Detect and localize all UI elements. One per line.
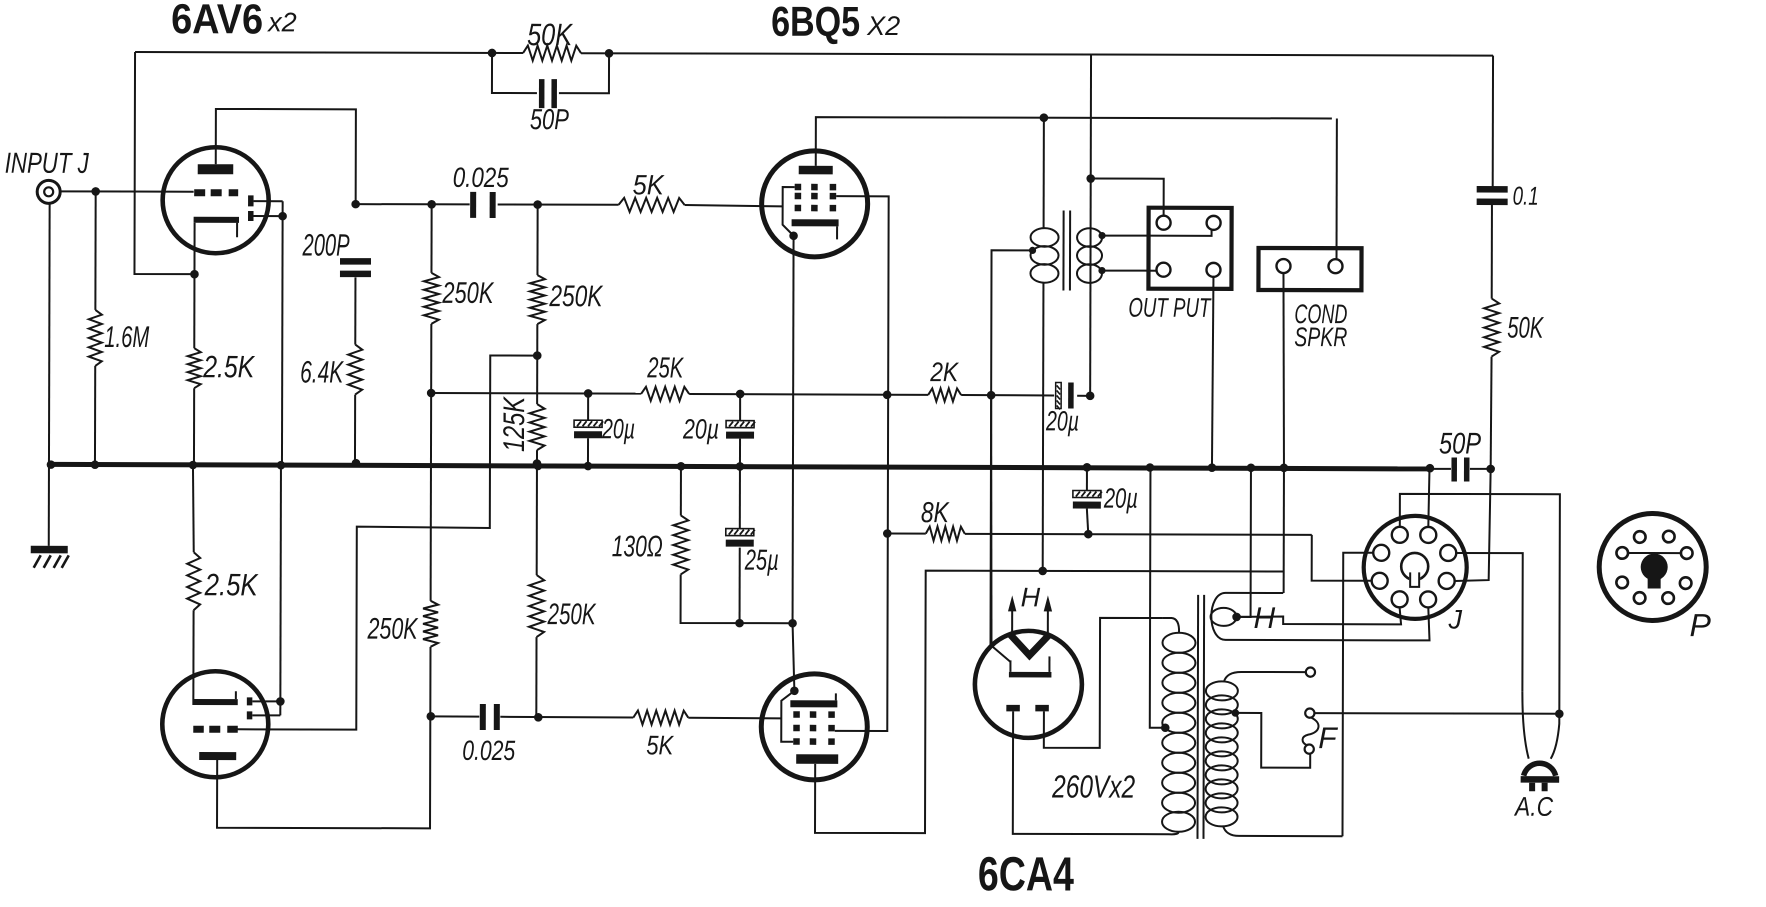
- node HV centre tap: [1161, 723, 1170, 732]
- tube V1 cathode: [194, 217, 239, 238]
- node bus junction at end: [1426, 464, 1435, 473]
- connector J pin 3: [1373, 545, 1389, 561]
- wire V1 diode plates tie-down: [253, 201, 283, 462]
- svg-text:25K: 25K: [646, 352, 684, 384]
- wire V2 diode plates tie-up: [252, 466, 281, 715]
- label 20u no.3: [1045, 405, 1079, 436]
- wire F switch to AC node: [1315, 712, 1560, 715]
- tube V3 grids (3x3): [795, 184, 837, 212]
- label 5K (top): [633, 169, 665, 200]
- connector P pin 3: [1616, 547, 1628, 559]
- node B (top rail / 50P loop right): [605, 49, 614, 58]
- label 125K (rotated): [498, 395, 531, 452]
- wire OPT primary bottom lead: [1042, 282, 1045, 570]
- tube V5 6CA4 envelope: [975, 631, 1082, 738]
- node OPT primary top: [1040, 113, 1049, 122]
- node coupling/250K-125K junction: [533, 200, 542, 209]
- tube V2 cathode: [192, 691, 237, 705]
- connector J pin 1: [1392, 527, 1408, 543]
- label 50K (right): [1507, 312, 1544, 345]
- resistor 2.5K (V1 cathode): [187, 348, 200, 462]
- node 20u-2 top: [736, 390, 745, 399]
- capacitor 20u no.2 (electrolytic): [726, 394, 755, 464]
- node screen rail / 8K: [883, 529, 892, 538]
- resistor 2.5K (V2 cathode): [187, 466, 200, 610]
- wire PT primary bottom lead: [1223, 826, 1343, 836]
- tube V2 diode plates: [247, 697, 253, 719]
- capacitor 20u no.4 (electrolytic): [1073, 469, 1102, 534]
- connector input jack J (inner tip): [44, 187, 53, 196]
- resistor 250K (upper left): [424, 273, 439, 324]
- terminal OUT PUT 3: [1156, 263, 1170, 277]
- node B+ at OPT feed: [1086, 174, 1095, 183]
- transformer OPT core: [1063, 210, 1070, 290]
- wire 125K to bus to 250K lower: [536, 450, 538, 575]
- terminal block OUT PUT: [1148, 208, 1231, 289]
- label 6BQ5 X2: [771, 0, 900, 45]
- wire ground bus (heavy): [51, 464, 1430, 469]
- wire V5 left plate to HV bottom: [1013, 711, 1170, 834]
- tube V5 heater chevron: [1010, 635, 1048, 656]
- tube V1 diode plates: [248, 195, 254, 221]
- label 200P: [302, 227, 350, 262]
- wire input jack sleeve to ground: [48, 204, 51, 546]
- wire PT primary top lead: [1224, 672, 1306, 682]
- tube V4 grids (3x3): [793, 711, 835, 745]
- tube V4 cathode: [790, 693, 837, 707]
- node B+ / OPT-CT junction: [987, 391, 996, 400]
- wire HV centre tap riser: [1150, 470, 1166, 728]
- svg-text:H: H: [1021, 582, 1041, 612]
- node 25K rail left end: [427, 389, 436, 398]
- capacitor 50P (across 50K): [539, 79, 557, 108]
- tube V5 plate left: [1006, 705, 1020, 712]
- wire 250K lower lead: [535, 637, 537, 717]
- svg-text:250K: 250K: [442, 277, 495, 310]
- connector J pin 8: [1420, 591, 1436, 607]
- svg-text:H: H: [1254, 602, 1276, 635]
- node bus junction at OUTPUT: [1208, 463, 1217, 472]
- wire phase-split branch to V2 grid: [237, 355, 537, 730]
- wire decoupling line (25K/2K rail): [431, 393, 1090, 396]
- label 130ohm: [612, 530, 663, 563]
- label COND SPKR: [1294, 299, 1347, 352]
- connector J pin 7: [1392, 591, 1408, 607]
- wire V4 g3 tie: [781, 691, 794, 742]
- node OPT secondary bottom: [1098, 267, 1105, 274]
- svg-text:F: F: [1318, 722, 1338, 755]
- connector P pin 5: [1616, 577, 1628, 589]
- svg-text:x2: x2: [266, 7, 297, 37]
- transformer OPT primary winding: [1030, 228, 1058, 283]
- resistor 250K (upper right): [530, 275, 545, 324]
- node bus junction at HVCT: [1146, 463, 1155, 472]
- label J: [1448, 604, 1463, 634]
- svg-text:0.025: 0.025: [462, 735, 515, 766]
- svg-text:20µ: 20µ: [1103, 483, 1138, 514]
- label F: [1318, 722, 1338, 755]
- svg-text:OUT PUT: OUT PUT: [1128, 293, 1212, 323]
- label 50P (across 50K): [530, 104, 570, 136]
- node bottom coupling right: [534, 713, 543, 722]
- label 250K (upper left): [442, 277, 495, 310]
- label 5K (bottom): [646, 730, 674, 760]
- wire B+ riser: [1089, 55, 1092, 396]
- connector P pin 8: [1662, 592, 1674, 604]
- ground chassis ground symbol: [31, 546, 69, 568]
- label 0.1: [1513, 181, 1539, 211]
- label 2.5K (V1): [202, 349, 255, 384]
- svg-text:X2: X2: [866, 11, 900, 41]
- svg-text:8K: 8K: [921, 497, 950, 529]
- wire PT primary bottom to J socket: [1342, 553, 1373, 837]
- node 50P right junction: [1486, 465, 1495, 474]
- tube V2 grid (dashed): [193, 726, 238, 733]
- connector P plug shell: [1599, 513, 1706, 620]
- node bus junction at 2.5K: [189, 461, 198, 470]
- connector P pin 2: [1663, 531, 1675, 543]
- wire V1 plate riser: [216, 109, 356, 204]
- wire heater H line to J socket: [1237, 607, 1402, 624]
- wire V5 heater arrow left: [1008, 595, 1016, 633]
- wire V5 heater arrow right: [1044, 595, 1053, 634]
- svg-text:50K: 50K: [527, 17, 573, 52]
- svg-text:2K: 2K: [929, 357, 959, 387]
- wire COND SPKR left to bus: [1283, 273, 1285, 467]
- resistor 250K (lower right): [529, 575, 544, 637]
- connector J pin 6: [1439, 573, 1455, 589]
- svg-text:250K: 250K: [547, 598, 597, 631]
- wire V2 cathode lead: [192, 610, 194, 699]
- node bus junction at 25u: [736, 462, 745, 471]
- node bus junction at 125K: [534, 462, 543, 471]
- label 250K (lower right): [547, 598, 597, 631]
- wire HV top lead entry: [1163, 618, 1180, 633]
- capacitor 25u (cathode bypass): [726, 468, 755, 624]
- node coupling/250K junction: [427, 200, 436, 209]
- svg-text:1.6M: 1.6M: [104, 321, 149, 354]
- node 6.4K at bus: [352, 459, 361, 468]
- transformer OPT secondary winding: [1077, 228, 1102, 283]
- label OUT PUT: [1128, 293, 1212, 323]
- node AC junction: [1555, 709, 1564, 718]
- switch F blade: [1303, 718, 1319, 745]
- capacitor 200P: [340, 258, 371, 277]
- label H (6CA4 heater): [1021, 582, 1041, 612]
- wire AC right wire: [1551, 714, 1560, 759]
- label 0.025 (top): [453, 162, 509, 193]
- wire feedback drop to V1 cathode: [134, 52, 191, 274]
- svg-text:20µ: 20µ: [682, 413, 719, 444]
- label 6.4K: [300, 354, 344, 389]
- terminal OUT PUT 4: [1206, 263, 1220, 277]
- wire V3/V4 cathode rail: [792, 236, 795, 691]
- wire B+ rail drop to COND SPKR: [1336, 118, 1338, 259]
- node cathode rail / bias network: [788, 619, 797, 628]
- wire V3 g2 to screen rail: [835, 196, 889, 731]
- terminal COND SPKR left: [1276, 259, 1290, 273]
- connector AC plug prongs: [1529, 783, 1548, 792]
- wire V3 plate riser to B+ rail: [816, 117, 1332, 167]
- wire OUT PUT ground lead: [1212, 277, 1213, 467]
- node input/1.6M junction: [91, 187, 100, 196]
- svg-text:2.5K: 2.5K: [204, 567, 259, 602]
- resistor 25K: [641, 387, 689, 401]
- node 20u-1 top: [584, 389, 593, 398]
- node bus junction at diode: [277, 461, 286, 470]
- svg-text:P: P: [1690, 607, 1712, 643]
- svg-text:0.025: 0.025: [453, 162, 509, 193]
- wire 50K to 50P node: [1490, 357, 1493, 469]
- wire coupling line (V2 plate to V4 grid): [430, 716, 781, 718]
- wire top rail (feedback/output line) y=54: [135, 52, 1493, 56]
- node OPT centre tap: [1029, 247, 1036, 254]
- wire input tip to V1 grid: [60, 190, 193, 192]
- connector J pin 4: [1440, 545, 1456, 561]
- label 20u no.4: [1103, 483, 1138, 514]
- node V1 diode tie: [278, 212, 287, 221]
- svg-text:20µ: 20µ: [1045, 405, 1079, 436]
- connector P pin 1: [1634, 531, 1646, 543]
- svg-text:6CA4: 6CA4: [978, 848, 1074, 901]
- wire V1 cathode lead: [193, 223, 195, 348]
- node bus junction at 20u4: [1083, 463, 1092, 472]
- wire J pin6 to 50P node: [1455, 469, 1491, 581]
- label 6AV6 x2: [171, 0, 297, 42]
- wire V3 g3 tie: [783, 187, 795, 236]
- label 50P (bus end): [1439, 427, 1481, 460]
- wire J pin2 to bus end: [1428, 470, 1429, 527]
- svg-text:0.1: 0.1: [1513, 181, 1539, 211]
- resistor 130ohm (cathode bias): [673, 467, 793, 623]
- svg-text:50P: 50P: [1439, 427, 1481, 460]
- node bus junction at Htap: [1247, 463, 1256, 472]
- resistor 125K: [530, 404, 545, 450]
- node bus junction at COND: [1280, 464, 1289, 473]
- node OPT secondary top: [1098, 232, 1105, 239]
- node 20u-4 bottom: [1084, 530, 1093, 539]
- connector P key (solid): [1641, 553, 1668, 588]
- wire 8K feed line: [887, 534, 1372, 581]
- capacitor 50P (bus end): [1451, 457, 1469, 481]
- tube V4 6BQ5 envelope: [761, 674, 867, 780]
- node A (top rail / 50P loop left): [488, 49, 497, 58]
- node V1 plate / coupling junction: [351, 200, 360, 209]
- node 25u bottom: [735, 619, 744, 628]
- node feedback/cathode junction: [190, 270, 199, 279]
- label 1.6M: [104, 321, 149, 354]
- capacitor 20u no.3 (electrolytic, inline): [1056, 382, 1074, 409]
- label 6CA4: [978, 848, 1074, 901]
- svg-text:6.4K: 6.4K: [300, 354, 344, 389]
- connector AC plug base: [1521, 776, 1560, 783]
- node heater tap: [1232, 613, 1241, 622]
- wire P link bar: [1628, 552, 1681, 554]
- svg-text:J: J: [1448, 604, 1463, 634]
- label 2K: [929, 357, 959, 387]
- connector J keyway: [1401, 553, 1428, 587]
- wire 0.1 to 50K: [1491, 204, 1493, 298]
- connector J pin 2: [1420, 527, 1436, 543]
- wire 250K-125K chain upper: [536, 205, 538, 275]
- terminal OUT PUT 2: [1207, 216, 1221, 230]
- wire B+ to OUT PUT terminal: [1091, 179, 1164, 216]
- terminal OUT PUT 1: [1157, 216, 1171, 230]
- tube V2 plate: [199, 752, 236, 760]
- label A.C: [1513, 792, 1553, 822]
- wire PT primary tap to F switch: [1235, 713, 1310, 768]
- svg-text:250K: 250K: [367, 613, 419, 646]
- svg-text:INPUT J: INPUT J: [5, 148, 89, 180]
- label H (heater line): [1254, 602, 1276, 635]
- resistor 5K (V4 grid stopper): [633, 711, 688, 725]
- label 20u no.2: [682, 413, 719, 444]
- wire coupling line (V1 plate to V3 grid): [356, 204, 783, 206]
- svg-text:5K: 5K: [633, 169, 665, 200]
- transformer PT core: [1197, 595, 1204, 839]
- connector P pin 4: [1681, 547, 1693, 559]
- node V3 cathode/g3: [789, 231, 798, 240]
- wire 250K chain upper: [430, 204, 432, 272]
- label 2.5K (V2): [204, 567, 259, 602]
- wire OPT centre tap: [990, 250, 1032, 646]
- label 50K (feedback): [527, 17, 573, 52]
- wire V5 cathode to B+ node: [990, 395, 1011, 662]
- node bus junction at 20u1: [584, 462, 593, 471]
- svg-text:20µ: 20µ: [601, 413, 635, 444]
- svg-text:SPKR: SPKR: [1294, 322, 1347, 352]
- svg-text:125K: 125K: [498, 395, 531, 452]
- wire bus to 50P cap: [1430, 468, 1491, 470]
- tube V5 plate right: [1035, 705, 1049, 712]
- node screens junction: [883, 390, 892, 399]
- terminal block COND SPKR: [1258, 248, 1361, 290]
- transformer PT HV secondary winding: [1162, 633, 1196, 832]
- svg-text:25µ: 25µ: [744, 545, 779, 577]
- wire top rail drop right: [1492, 56, 1494, 188]
- wire J pin1 to AC switch line: [1399, 494, 1560, 714]
- connector J socket shell: [1364, 516, 1467, 619]
- svg-text:260Vx2: 260Vx2: [1051, 768, 1135, 804]
- node V2 diode tie: [276, 697, 285, 706]
- wire OPT secondary bottom lead: [1102, 270, 1156, 272]
- label 8K: [921, 497, 950, 529]
- tube V1 6AV6 envelope: [163, 147, 269, 253]
- svg-text:2.5K: 2.5K: [202, 349, 255, 384]
- wire V4 plate line: [815, 570, 1284, 834]
- resistor 250K (lower left): [423, 601, 438, 647]
- resistor 50K (right): [1484, 299, 1499, 357]
- node 20u-3 right / B+ riser: [1086, 392, 1095, 401]
- svg-text:A.C: A.C: [1513, 792, 1553, 822]
- capacitor 0.1: [1477, 186, 1508, 205]
- svg-text:200P: 200P: [302, 227, 350, 262]
- resistor 2K (screen feed): [928, 388, 961, 401]
- switch F contact lower: [1305, 745, 1314, 754]
- wire OPT secondary top lead: [1102, 230, 1212, 236]
- connector J pin 5: [1372, 573, 1388, 589]
- wire 250K chain to bottom plate line: [217, 646, 430, 828]
- label P: [1690, 607, 1712, 643]
- label 260Vx2: [1051, 768, 1135, 804]
- wire 250K chain middle: [430, 324, 433, 601]
- terminal COND SPKR right: [1328, 259, 1342, 273]
- svg-text:130Ω: 130Ω: [612, 530, 663, 563]
- wire heater tap riser to bus: [1237, 470, 1251, 617]
- wire 50P bypass loop: [492, 53, 609, 93]
- resistor 5K (V3 grid stopper): [619, 198, 685, 212]
- wire HV bottom exit: [1169, 832, 1179, 835]
- connector input jack J (outer): [37, 180, 60, 203]
- svg-text:50K: 50K: [1507, 312, 1544, 345]
- tube V4 plate: [796, 754, 838, 764]
- resistor 8K: [926, 527, 965, 541]
- node bus junction at 130: [677, 462, 686, 471]
- node V4 cathode/g3: [790, 686, 799, 695]
- tube V1 grid (dashed): [194, 189, 238, 196]
- label 20u no.1: [601, 413, 635, 444]
- label 250K (upper right): [549, 280, 604, 313]
- wire V5 right plate to HV top: [1044, 618, 1163, 748]
- node bus junction at gnd: [47, 460, 56, 469]
- label INPUT J: [5, 148, 89, 180]
- wire J pin4 to AC plug: [1456, 553, 1530, 759]
- node 125K at bus: [533, 459, 542, 468]
- svg-text:250K: 250K: [549, 280, 604, 313]
- tube V3 plate: [799, 166, 833, 175]
- node V4 plate line / OPT: [1038, 567, 1047, 576]
- transformer PT primary winding: [1206, 681, 1238, 826]
- resistor 1.6M (grid leak): [88, 191, 102, 462]
- wire 200P to 6.4K: [354, 277, 356, 344]
- transformer PT heater winding (hairpin): [1211, 593, 1430, 641]
- capacitor 0.025 (top coupling): [470, 192, 496, 218]
- switch F contact upper: [1305, 709, 1314, 718]
- svg-text:5K: 5K: [646, 730, 674, 760]
- connector P pin 6: [1680, 577, 1692, 589]
- capacitor 0.025 (bottom coupling): [480, 704, 500, 730]
- tube V3 6BQ5 envelope: [762, 151, 868, 257]
- tube V2 6AV6 envelope: [162, 671, 268, 777]
- connector P pin 7: [1634, 592, 1646, 604]
- label 25K: [646, 352, 684, 384]
- node phase-split junction: [533, 351, 542, 360]
- svg-text:50P: 50P: [530, 104, 570, 136]
- resistor 6.4K: [348, 345, 362, 463]
- wire OPT primary top lead: [1043, 118, 1045, 229]
- capacitor 20u no.1 (electrolytic): [574, 393, 603, 463]
- label 25u: [744, 545, 779, 577]
- wire heater top arm riser to bus: [1283, 470, 1285, 593]
- label 250K (lower left): [367, 613, 419, 646]
- svg-text:6AV6: 6AV6: [171, 0, 263, 42]
- node bottom coupling left: [426, 712, 435, 721]
- label 0.025 (bottom): [462, 735, 515, 766]
- node PT primary tap: [1232, 709, 1240, 717]
- node bus junction at 1.6M: [91, 460, 100, 469]
- tube V3 cathode: [792, 219, 839, 239]
- tube V1 plate: [198, 164, 234, 174]
- resistor 50K (feedback, in top rail): [523, 46, 581, 61]
- wire to phase-split junction: [536, 324, 538, 404]
- terminal PT primary top contact: [1306, 668, 1315, 677]
- tube V5 cathode: [1009, 656, 1052, 677]
- svg-text:6BQ5: 6BQ5: [771, 0, 860, 45]
- connector AC plug dome: [1524, 763, 1556, 776]
